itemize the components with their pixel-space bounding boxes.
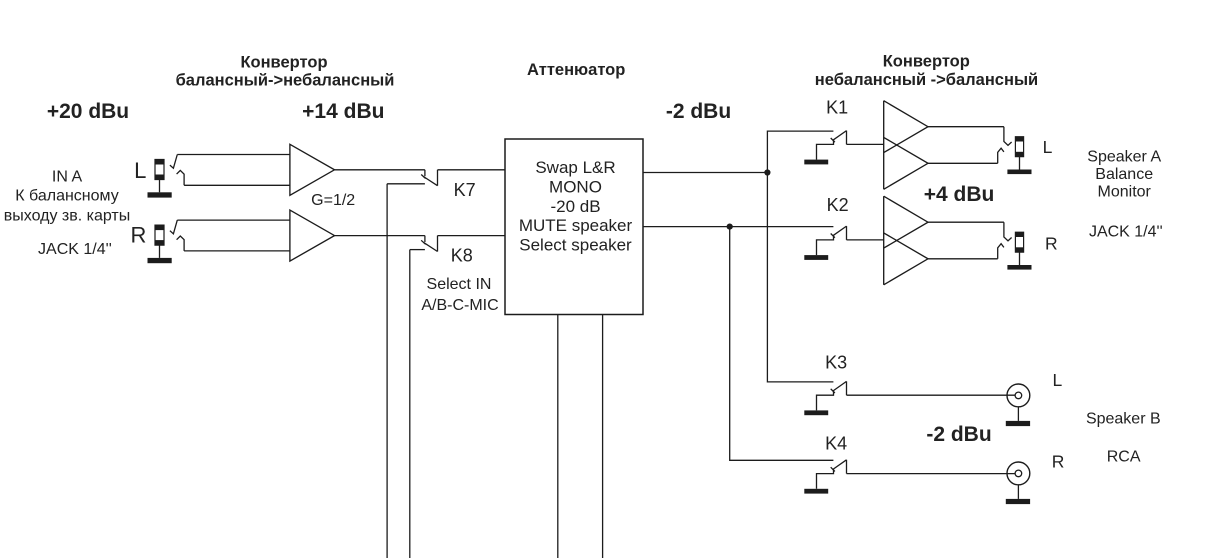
RCA mount bar RCA-L (1006, 421, 1030, 426)
svg-text:+4 dBu: +4 dBu (924, 183, 995, 206)
svg-text:-2 dBu: -2 dBu (926, 423, 991, 446)
relay K1 arm tick (831, 138, 835, 142)
relay K4 ground contact (817, 469, 834, 489)
relay K7 fixed contact stub (424, 170, 426, 176)
relay K7 arm (423, 177, 437, 186)
svg-text:выходу зв. карты: выходу зв. карты (4, 208, 131, 225)
jack ring contact J-A-L (998, 148, 1004, 163)
svg-text:Swap L&R: Swap L&R (535, 158, 615, 177)
svg-text:JACK 1/4'': JACK 1/4'' (38, 241, 112, 258)
relay K8 arm tick (421, 240, 425, 244)
jack ring contact J-A-R (998, 244, 1004, 259)
relay K8 contact B wire (410, 249, 425, 251)
jack plug tip cap J-A-R (1015, 232, 1023, 237)
relay K8 common post (437, 236, 439, 252)
jack stem J-A-R (1019, 252, 1021, 265)
wire relay K2 common to output (847, 239, 884, 241)
jack plug body J-A-R (1015, 232, 1023, 252)
wire U1 out to K7 (335, 169, 425, 171)
jack plug sleeve cap J-IN-L (155, 175, 164, 180)
wire relay K1 common to output (847, 143, 884, 145)
RCA connector RCA-L center pin (1015, 392, 1022, 399)
attenuator box U3 (505, 139, 643, 315)
relay K3 ground contact (817, 391, 834, 411)
ground bar K3 (804, 410, 828, 415)
op-amp U2 (R input buffer) (290, 210, 335, 261)
wire node B drop to K4 (730, 227, 834, 461)
svg-text:+20 dBu: +20 dBu (47, 100, 129, 123)
RCA connector RCA-R outer ring (1007, 462, 1030, 485)
svg-text:G=1/2: G=1/2 (311, 192, 355, 209)
wire box out R to K2 (643, 226, 833, 228)
svg-text:Аттенюатор: Аттенюатор (527, 61, 625, 79)
node B junction dot (727, 224, 733, 230)
ground bar K4 (804, 489, 828, 494)
wire jack L tip to amp (177, 154, 290, 156)
relay K7 common post (437, 170, 439, 186)
relay K1 common post (846, 131, 848, 145)
jack tip contact J-IN-R (170, 220, 177, 234)
svg-text:K7: K7 (454, 180, 476, 200)
jack stem J-IN-R (159, 245, 161, 258)
relay K1 arm (833, 131, 847, 141)
relay K3 common post (846, 381, 848, 395)
driver A-R input edge (883, 196, 885, 285)
svg-text:L: L (1043, 137, 1053, 157)
svg-text:Select IN: Select IN (427, 276, 492, 293)
jack plug sleeve cap J-A-L (1015, 152, 1023, 157)
relay K8 arm (423, 242, 437, 251)
wire K7 to attenuator box (438, 169, 506, 171)
svg-text:R: R (131, 222, 147, 247)
svg-text:MUTE speaker: MUTE speaker (519, 216, 633, 235)
wire relay K3 common to output (847, 394, 1016, 396)
svg-text:Speaker A: Speaker A (1087, 149, 1161, 166)
jack plug body J-IN-R (155, 225, 164, 245)
wire driver cold out J-A-R (928, 258, 998, 260)
wire U2 out to K8 (335, 235, 425, 237)
jack plug sleeve cap J-A-R (1015, 247, 1023, 252)
jack stem J-A-L (1019, 157, 1021, 170)
svg-text:K8: K8 (451, 246, 473, 266)
driver A-R lower triangle (884, 233, 928, 285)
jack plug tip cap J-IN-R (155, 225, 164, 230)
relay K2 common post (846, 226, 848, 240)
RCA connector RCA-L outer ring (1007, 384, 1030, 407)
relay K4 arm tick (831, 467, 835, 471)
wire driver cold out J-A-L (928, 162, 998, 164)
svg-text:L: L (134, 158, 146, 183)
relay K2 arm tick (831, 234, 835, 238)
driver A-R upper triangle (884, 196, 928, 248)
wire jack L ring to amp (184, 184, 290, 186)
relay K4 arm (833, 460, 847, 470)
svg-text:K4: K4 (825, 434, 847, 454)
relay K3 arm (833, 381, 847, 391)
relay K7 contact B wire (387, 183, 425, 185)
svg-text:Monitor: Monitor (1098, 183, 1152, 200)
driver A-L upper triangle (884, 101, 928, 153)
svg-text:K2: K2 (827, 195, 849, 215)
relay K1 ground contact (817, 140, 834, 160)
relay K4 common post (846, 460, 848, 474)
wire driver hot out J-A-R (928, 221, 1004, 223)
relay K8 fixed contact stub (424, 236, 426, 242)
RCA connector RCA-R center pin (1015, 470, 1022, 477)
jack mount bar J-IN-L (148, 192, 172, 197)
jack plug tip cap J-IN-L (155, 160, 164, 165)
svg-text:MONO: MONO (549, 177, 602, 196)
jack stem J-IN-L (159, 180, 161, 193)
jack plug tip cap J-A-L (1015, 137, 1023, 142)
svg-text:Конвертор: Конвертор (240, 54, 327, 72)
RCA mount bar RCA-R (1006, 499, 1030, 504)
RCA stem RCA-L (1017, 407, 1019, 421)
svg-text:IN A: IN A (52, 168, 83, 185)
svg-text:K3: K3 (825, 352, 847, 372)
jack mount bar J-A-R (1007, 265, 1031, 270)
jack tip contact J-A-R (1004, 222, 1012, 241)
jack plug sleeve cap J-IN-R (155, 240, 164, 245)
wire box bottom port 1 (557, 315, 559, 558)
svg-text:балансный->небалансный: балансный->небалансный (176, 72, 395, 90)
relay K2 ground contact (817, 235, 834, 255)
svg-text:К балансному: К балансному (15, 188, 118, 205)
relay K3 arm tick (831, 389, 835, 393)
svg-text:Balance: Balance (1095, 166, 1153, 183)
jack mount bar J-IN-R (148, 258, 172, 263)
svg-text:Конвертор: Конвертор (883, 53, 970, 71)
svg-text:K1: K1 (826, 98, 848, 118)
wire box bottom port 2 (602, 315, 604, 558)
svg-text:-2 dBu: -2 dBu (666, 100, 731, 123)
driver A-L lower triangle (884, 137, 928, 189)
svg-text:JACK 1/4'': JACK 1/4'' (1089, 224, 1163, 241)
svg-text:R: R (1052, 451, 1065, 471)
ground bar K1 (804, 160, 828, 165)
driver A-L input edge (883, 101, 885, 190)
RCA stem RCA-R (1017, 485, 1019, 499)
jack plug body J-IN-L (155, 160, 164, 180)
jack ring contact J-IN-R (177, 236, 185, 251)
jack ring contact J-IN-L (177, 170, 185, 185)
relay K7 arm tick (421, 175, 425, 179)
node A junction dot (764, 169, 770, 175)
svg-text:R: R (1045, 234, 1058, 254)
svg-text:-20 dB: -20 dB (550, 197, 600, 216)
jack tip contact J-IN-L (170, 155, 177, 169)
relay K2 arm (833, 226, 847, 236)
wire box out L to node A (643, 172, 767, 174)
svg-text:A/B-C-MIC: A/B-C-MIC (421, 297, 498, 314)
svg-text:L: L (1053, 370, 1063, 390)
wire drop from relay K8 contact B (409, 250, 411, 558)
jack mount bar J-A-L (1007, 170, 1031, 175)
op-amp U1 (L input buffer) (290, 144, 335, 195)
ground bar K2 (804, 255, 828, 260)
wire node A drop to K3 (767, 173, 833, 382)
svg-text:небалансный ->балансный: небалансный ->балансный (815, 71, 1038, 89)
wire node A riser to K1 (767, 131, 833, 172)
svg-text:Select speaker: Select speaker (519, 236, 632, 255)
svg-text:RCA: RCA (1107, 448, 1141, 465)
wire drop from relay K7 contact B (386, 184, 388, 558)
wire relay K4 common to output (847, 473, 1016, 475)
wire jack R ring to amp (184, 250, 290, 252)
svg-text:+14 dBu: +14 dBu (302, 100, 384, 123)
jack plug body J-A-L (1015, 137, 1023, 157)
jack tip contact J-A-L (1004, 127, 1012, 146)
wire driver hot out J-A-L (928, 126, 1004, 128)
wire jack R tip to amp (177, 219, 290, 221)
svg-text:Speaker B: Speaker B (1086, 410, 1161, 427)
wire K8 to attenuator box (438, 235, 506, 237)
